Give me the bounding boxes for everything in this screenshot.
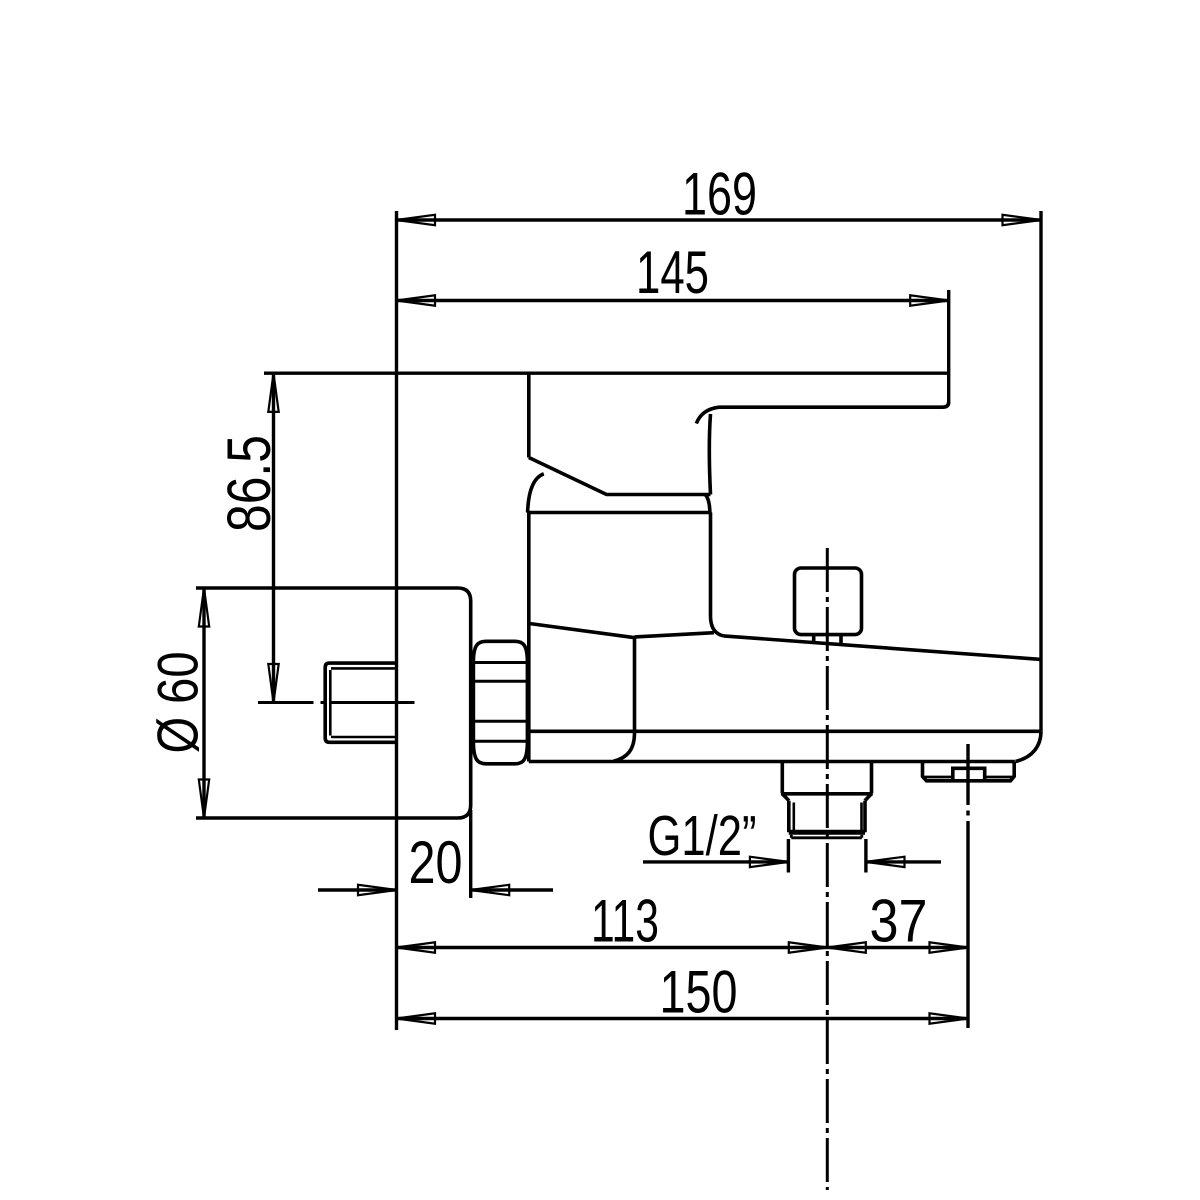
svg-text:G1/2”: G1/2” [648,804,757,868]
svg-text:20: 20 [409,828,463,896]
svg-text:Ø 60: Ø 60 [147,652,211,754]
svg-text:86.5: 86.5 [215,435,283,532]
svg-text:113: 113 [591,887,659,955]
svg-text:145: 145 [636,238,709,306]
svg-text:150: 150 [660,958,738,1026]
svg-text:37: 37 [870,887,928,955]
svg-text:169: 169 [682,160,757,228]
